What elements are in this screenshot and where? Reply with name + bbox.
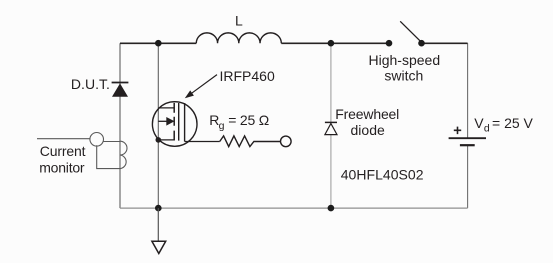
svg-text:Current: Current (40, 143, 86, 159)
svg-text:= 25 Ω: = 25 Ω (228, 112, 269, 128)
svg-text:= 25 V: = 25 V (492, 115, 534, 131)
svg-text:diode: diode (351, 122, 386, 138)
svg-text:switch: switch (384, 67, 423, 83)
svg-text:40HFL40S02: 40HFL40S02 (341, 166, 424, 182)
svg-text:monitor: monitor (39, 159, 85, 175)
svg-text:D.U.T.: D.U.T. (71, 76, 110, 92)
svg-text:V: V (474, 115, 484, 131)
svg-text:High-speed: High-speed (369, 52, 441, 68)
svg-text:g: g (219, 120, 225, 132)
svg-text:d: d (484, 122, 490, 134)
svg-text:IRFP460: IRFP460 (220, 68, 275, 84)
svg-text:L: L (235, 12, 243, 28)
svg-text:Freewheel: Freewheel (335, 106, 399, 122)
